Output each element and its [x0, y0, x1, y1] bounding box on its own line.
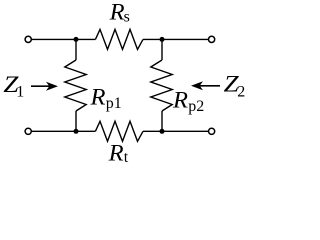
resistor Rp1: [65, 60, 86, 111]
node junction top-left: [74, 37, 79, 42]
resistor Rs: [95, 29, 143, 49]
svg-text:t: t: [124, 149, 129, 166]
terminal port1 top-left: [25, 36, 31, 42]
svg-text:p2: p2: [188, 98, 204, 115]
label Z2: [224, 72, 246, 101]
svg-text:R: R: [108, 141, 124, 166]
node junction bottom-right: [160, 129, 165, 134]
label Rs value: [109, 0, 130, 26]
svg-text:2: 2: [237, 84, 245, 101]
wire left vertical lower: [75, 111, 77, 131]
arrow Z2 pointing left: [191, 81, 220, 90]
wire right vertical lower: [161, 111, 163, 131]
terminal port2 top-right: [209, 36, 215, 42]
svg-text:p1: p1: [106, 95, 122, 112]
svg-text:R: R: [89, 85, 105, 110]
svg-text:1: 1: [16, 84, 24, 101]
resistor Rt: [95, 121, 143, 141]
wire bottom lead into Rt: [76, 130, 95, 132]
terminal port2 bottom-right: [209, 128, 215, 134]
label Rp2 value: [172, 88, 204, 115]
label Rp1 value: [89, 85, 121, 112]
svg-text:R: R: [109, 0, 125, 25]
wire bottom-left: [32, 130, 76, 132]
label Rt value: [108, 141, 129, 166]
label Z1: [3, 72, 24, 100]
svg-text:s: s: [124, 9, 130, 26]
wire top lead out of Rs: [143, 38, 162, 40]
wire right vertical upper: [161, 39, 163, 60]
svg-text:R: R: [172, 88, 188, 113]
node junction top-right: [160, 37, 165, 42]
resistor Rp2: [151, 60, 172, 111]
arrow Z1 pointing right: [31, 82, 58, 91]
wire left vertical upper: [75, 39, 77, 60]
wire top lead into Rs: [76, 38, 95, 40]
terminal port1 bottom-left: [25, 128, 31, 134]
wire top-left: [32, 38, 76, 40]
wire bottom lead out of Rt: [143, 130, 162, 132]
node junction bottom-left: [74, 129, 79, 134]
wire bottom-right: [162, 130, 209, 132]
wire top-right: [162, 38, 209, 40]
